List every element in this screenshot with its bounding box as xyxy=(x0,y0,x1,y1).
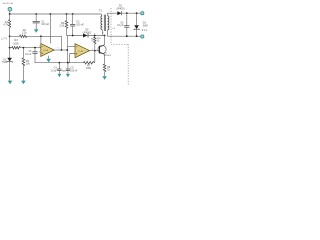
capacitor C4 xyxy=(58,63,60,69)
capacitor C6 xyxy=(126,13,128,25)
svg-text:100k: 100k xyxy=(13,43,19,46)
resistor R7 xyxy=(83,61,94,64)
ground (IC1A) xyxy=(48,56,50,59)
svg-text:3: 3 xyxy=(39,52,40,54)
node: rail junction C2 xyxy=(72,13,74,15)
ground (D1) xyxy=(8,81,13,85)
svg-text:4.7k: 4.7k xyxy=(3,24,8,27)
node line: divider node x=67.3 xyxy=(66,36,68,63)
input terminal xyxy=(8,7,12,11)
svg-text:10 µF: 10 µF xyxy=(51,70,58,72)
svg-text:UF4001: UF4001 xyxy=(116,7,125,10)
wire: top rail xyxy=(10,13,102,15)
resistor R6 xyxy=(94,37,96,44)
resistor R1 xyxy=(9,14,11,20)
zener D3 xyxy=(136,13,138,25)
wire: clamp line y=35.5 xyxy=(67,35,83,37)
capacitor C1 xyxy=(35,14,37,21)
ground (R5) xyxy=(21,81,26,85)
svg-text:10 nF: 10 nF xyxy=(25,53,32,56)
node: C3 junction xyxy=(34,47,36,49)
resistor R3 xyxy=(12,46,21,49)
resistor R2 xyxy=(10,35,20,37)
resistor R8 xyxy=(103,64,106,72)
node: rail junction C1 xyxy=(35,13,37,15)
node: rail junction op-amp supply xyxy=(50,13,52,15)
svg-text:10 µF: 10 µF xyxy=(117,24,124,27)
wire: op1 output to feedback node xyxy=(54,49,61,51)
ground (C1) xyxy=(34,29,39,33)
node: bottom rail junctions xyxy=(126,35,128,37)
svg-text:1 k: 1 k xyxy=(112,28,115,30)
capacitor C2 xyxy=(72,14,74,24)
op-amp IC1B xyxy=(75,44,90,58)
wire: op2 output to Q1 base xyxy=(90,50,100,52)
op-amp IC1A xyxy=(49,14,51,44)
diode D5 xyxy=(83,34,88,38)
output terminal top xyxy=(141,12,144,15)
svg-text:5.1 V: 5.1 V xyxy=(142,29,148,32)
node A (1.7V) xyxy=(9,35,11,37)
resistor R5 xyxy=(22,48,24,58)
wire: R7 right leg xyxy=(94,51,96,63)
svg-text:5W0: 5W0 xyxy=(143,24,149,27)
wire: op2 bottom input xyxy=(70,54,75,63)
node: rail junction R4 xyxy=(66,13,68,15)
svg-text:IC1A: IC1A xyxy=(43,49,48,52)
svg-text:100 nF: 100 nF xyxy=(76,23,84,26)
svg-text:4: 4 xyxy=(94,33,95,35)
wire: secondary top to D2 xyxy=(108,13,118,16)
capacitor C5 xyxy=(67,63,69,69)
wire: emitter down xyxy=(104,54,106,63)
svg-text:IC1B: IC1B xyxy=(78,51,83,53)
node: branch to op-amp1 plus input xyxy=(40,35,42,37)
svg-text:9 to 32 V dc: 9 to 32 V dc xyxy=(3,2,14,5)
output terminal bottom xyxy=(141,35,144,38)
svg-text:2.2k: 2.2k xyxy=(22,32,27,35)
ground (R8) xyxy=(102,76,107,80)
svg-text:tant: tant xyxy=(62,69,66,72)
diode D2 xyxy=(117,11,121,15)
svg-text:1: 1 xyxy=(58,48,59,50)
ground (C4) xyxy=(57,74,61,77)
wire: ground bus y=62.7 xyxy=(58,62,84,64)
wire: op2 top input xyxy=(67,45,75,47)
diode D1 xyxy=(9,48,11,58)
wire: collector up xyxy=(104,36,106,45)
svg-text:100 nF: 100 nF xyxy=(70,70,78,72)
svg-text:100 µF: 100 µF xyxy=(41,23,49,26)
resistor R4 xyxy=(66,14,68,21)
svg-text:1.7 V: 1.7 V xyxy=(1,37,7,40)
svg-text:6: 6 xyxy=(103,33,104,35)
isolation boundary (dashed) xyxy=(111,8,128,86)
svg-text:100k: 100k xyxy=(86,67,92,70)
transistor Q1 xyxy=(98,45,106,53)
svg-text:UF4002: UF4002 xyxy=(83,31,92,34)
svg-text:5V6: 5V6 xyxy=(2,61,7,64)
ground (C5) xyxy=(66,74,70,77)
node: rail junction at input xyxy=(9,13,11,15)
svg-text:2.2k: 2.2k xyxy=(59,25,64,28)
capacitor C3 xyxy=(34,48,36,52)
